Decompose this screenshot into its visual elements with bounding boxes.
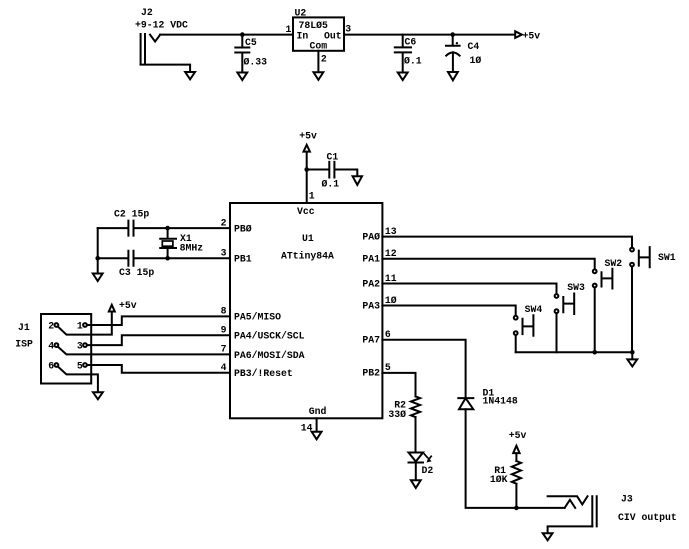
wire (ISP pin6 to ground) (58, 367, 98, 392)
wire (U1 Gnd pin 14) (316, 418, 318, 431)
svg-text:7: 7 (221, 344, 227, 355)
connector J3 (548, 494, 677, 533)
wire (J2 tip to U2 In) (160, 34, 293, 36)
node (output junction R1) (514, 506, 519, 511)
svg-text:Ø.1: Ø.1 (322, 179, 340, 190)
wire (SW3 to bus) (556, 313, 558, 352)
svg-text:C6: C6 (405, 37, 417, 48)
regulator U2 78L05 (293, 8, 344, 52)
svg-text:1: 1 (286, 24, 292, 35)
capacitor C2 (98, 209, 150, 236)
svg-text:C4: C4 (468, 41, 480, 52)
wire (SW4 to bus) (515, 335, 517, 352)
wire (ISP pin3 to U1 pin9 PA4) (87, 335, 230, 345)
svg-text:C1: C1 (327, 152, 339, 163)
svg-text:PAØ: PAØ (362, 231, 380, 242)
capacitor C3 (98, 251, 155, 278)
svg-text:ATtiny84A: ATtiny84A (281, 251, 334, 262)
wire (Vcc stub) (306, 152, 308, 203)
svg-text:PA3: PA3 (362, 300, 380, 311)
svg-text:+5v: +5v (509, 430, 527, 441)
svg-text:In: In (297, 31, 309, 42)
resistor R2 (388, 396, 420, 420)
capacitor C6 (395, 35, 422, 72)
wire (PA7 to D1) (382, 340, 465, 398)
wire (switch ground bus) (516, 352, 633, 359)
svg-text:SW1: SW1 (658, 252, 676, 263)
ground (C1) (353, 176, 362, 185)
wire (U2 Out rail) (344, 34, 515, 36)
ground (C2/C3) (93, 274, 103, 282)
svg-text:Gnd: Gnd (309, 406, 327, 417)
wire (ISP pin5 to U1 pin4 PB3) (87, 365, 230, 373)
wire (to ground) (97, 258, 99, 273)
svg-text:PB2: PB2 (362, 368, 380, 379)
svg-text:PA6/MOSI/SDA: PA6/MOSI/SDA (234, 350, 305, 361)
svg-text:PB3/!Reset: PB3/!Reset (234, 368, 293, 379)
svg-text:2: 2 (221, 217, 227, 228)
wire (PB1 pin 3) (134, 257, 231, 259)
svg-text:2: 2 (48, 320, 54, 331)
capacitor C5 (235, 35, 267, 72)
node (crystal bottom junction) (165, 256, 170, 261)
switch SW3 (555, 282, 585, 314)
IC U1 ATtiny84A (230, 203, 382, 418)
node (crystal top junction) (165, 226, 170, 231)
svg-text:3: 3 (221, 247, 227, 258)
svg-text:ISP: ISP (15, 339, 33, 350)
svg-text:Vcc: Vcc (297, 206, 315, 217)
svg-text:3: 3 (345, 23, 351, 34)
svg-text:SW4: SW4 (525, 304, 543, 315)
LED D2 (409, 453, 434, 476)
svg-text:C2 15p: C2 15p (114, 209, 149, 220)
svg-text:J1: J1 (18, 322, 30, 333)
node (SW1 bus junction) (630, 350, 635, 355)
power +5v (ISP) (109, 300, 137, 312)
diode D1 (458, 387, 518, 409)
svg-text:C5: C5 (245, 37, 257, 48)
svg-text:+9-12 VDC: +9-12 VDC (135, 20, 188, 31)
ground (D2) (411, 480, 421, 488)
node (SW2 bus junction) (592, 350, 597, 355)
wire (PA0 to SW1) (382, 237, 632, 248)
svg-text:SW2: SW2 (605, 258, 623, 269)
power +5v (U1 Vcc) (299, 130, 317, 151)
svg-text:9: 9 (221, 325, 227, 336)
connector J1 ISP (15, 314, 91, 384)
wire (R2 to D2) (415, 417, 417, 452)
svg-text:8MHz: 8MHz (180, 242, 204, 253)
svg-text:1N4148: 1N4148 (483, 395, 518, 406)
wire J2 sleeve to ground (141, 65, 191, 72)
wire (ISP pin2 to +5v) (58, 312, 112, 335)
svg-text:U1: U1 (302, 233, 314, 244)
svg-text:1Ø: 1Ø (470, 55, 482, 66)
ground (U1 Gnd) (312, 432, 322, 440)
svg-text:6: 6 (48, 360, 54, 371)
svg-text:J3: J3 (621, 494, 633, 505)
ground (C5) (237, 73, 247, 81)
svg-text:12: 12 (385, 248, 397, 259)
svg-text:Ø.33: Ø.33 (244, 57, 268, 68)
svg-text:U2: U2 (295, 8, 307, 19)
wire (PA2 to SW3) (382, 284, 556, 294)
wire (SW2 to bus) (594, 288, 596, 353)
svg-text:D2: D2 (422, 465, 434, 476)
svg-text:5: 5 (385, 362, 391, 373)
ground (C4) (448, 72, 458, 80)
wire (PB0 pin 2) (134, 227, 231, 229)
node (C5 junction) (240, 32, 245, 37)
svg-text:5: 5 (77, 360, 83, 371)
wire (PA3 to SW4) (382, 306, 515, 316)
wire (PB2 to R2) (382, 373, 415, 397)
switch SW2 (593, 258, 622, 289)
svg-text:2: 2 (321, 54, 327, 65)
connector J2 (135, 7, 188, 64)
svg-text:PA2: PA2 (362, 278, 380, 289)
node (Vcc/C1 junction) (304, 167, 309, 172)
ground (J3) (543, 533, 553, 540)
svg-text:CIV output: CIV output (618, 512, 677, 523)
svg-text:PA5/MISO: PA5/MISO (234, 312, 281, 323)
svg-text:Ø.1: Ø.1 (404, 56, 422, 67)
svg-text:+5v: +5v (119, 300, 137, 311)
svg-text:1ØK: 1ØK (490, 474, 508, 485)
svg-text:+5v: +5v (299, 130, 317, 141)
resistor R1 (490, 454, 521, 508)
ground (J2) (185, 72, 195, 79)
svg-text:1Ø: 1Ø (385, 295, 397, 306)
crystal X1 (160, 228, 203, 258)
svg-text:4: 4 (221, 362, 227, 373)
svg-text:PA4/USCK/SCL: PA4/USCK/SCL (234, 331, 305, 342)
power +5v (rail arrow) (515, 30, 540, 41)
power +5v (R1) (509, 430, 527, 453)
node (C4 junction) (450, 32, 455, 37)
wire (ISP pin1 to U1 pin8 PA5) (87, 316, 230, 325)
svg-text:PA7: PA7 (362, 335, 380, 346)
ground (C6) (398, 73, 408, 81)
capacitor C4 (electrolytic) (446, 35, 481, 72)
capacitor C1 (307, 152, 358, 190)
svg-text:J2: J2 (141, 7, 153, 18)
svg-text:SW3: SW3 (567, 282, 585, 293)
wire (PA1 to SW2) (382, 259, 594, 270)
svg-text:1: 1 (309, 191, 315, 202)
svg-text:4: 4 (48, 340, 54, 351)
wire (SW1 to bus) (631, 267, 633, 353)
switch SW4 (514, 304, 543, 336)
wire (D1 to output node) (466, 409, 565, 508)
svg-text:1: 1 (77, 320, 83, 331)
wire (ISP pin4 to U1 pin7 PA6) (58, 347, 230, 355)
svg-text:PA1: PA1 (362, 254, 380, 265)
svg-text:6: 6 (385, 329, 391, 340)
switch SW1 (630, 247, 676, 267)
svg-text:PBØ: PBØ (234, 223, 252, 234)
svg-text:11: 11 (385, 273, 397, 284)
svg-text:3: 3 (77, 340, 83, 351)
svg-text:PB1: PB1 (234, 253, 252, 264)
node (C3 junction) (95, 256, 100, 261)
svg-text:8: 8 (221, 306, 227, 317)
svg-text:13: 13 (385, 226, 397, 237)
ground (switch bus) (627, 359, 637, 366)
wire (D2 to ground) (415, 463, 417, 480)
svg-text:33Ø: 33Ø (388, 409, 406, 420)
wire (left vertical C2/C3) (97, 228, 99, 258)
pin 2 stub (U2 Com) (317, 51, 319, 72)
ground (ISP) (93, 392, 103, 399)
svg-text:C3 15p: C3 15p (119, 267, 154, 278)
svg-text:+5v: +5v (523, 30, 541, 41)
ground (U2) (314, 72, 324, 80)
